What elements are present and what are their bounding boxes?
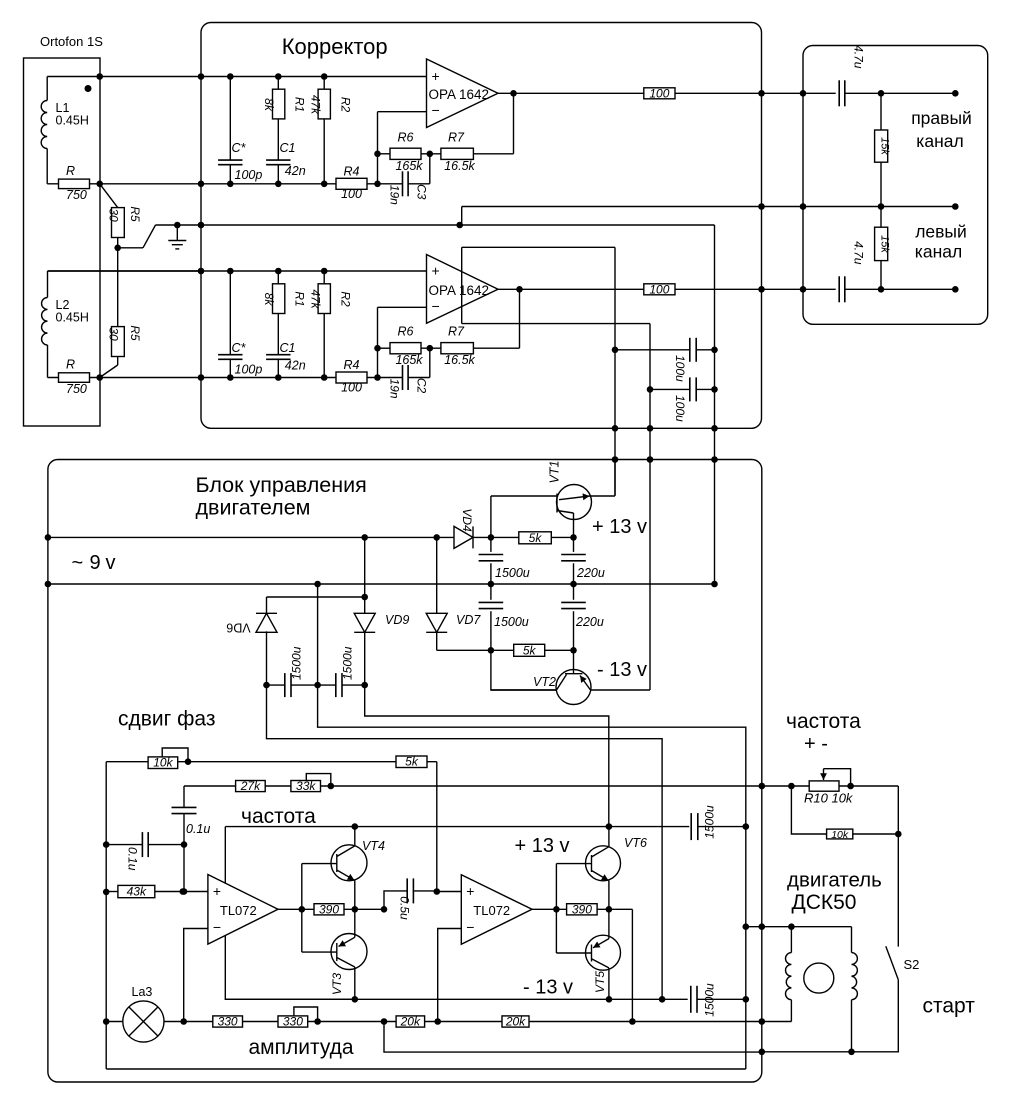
svg-text:R7: R7 [448,325,465,339]
svg-text:20k: 20k [505,1015,526,1029]
svg-text:двигатель: двигатель [787,869,882,892]
svg-text:+: + [432,68,440,84]
svg-text:канал: канал [915,242,962,262]
svg-text:1500u: 1500u [703,805,717,839]
svg-text:−: − [466,919,474,935]
svg-text:C2: C2 [415,378,429,394]
svg-text:R6: R6 [398,325,414,339]
svg-text:R5: R5 [128,325,142,341]
svg-text:+ 13 v: + 13 v [592,516,647,538]
svg-text:30: 30 [107,327,121,341]
svg-text:1500u: 1500u [703,983,717,1017]
svg-text:левый: левый [915,222,967,242]
svg-text:5k: 5k [529,531,543,545]
svg-text:47k: 47k [309,95,323,115]
svg-text:R7: R7 [448,130,465,144]
svg-text:10k: 10k [831,829,849,841]
svg-text:100u: 100u [673,355,687,382]
svg-text:0.1u: 0.1u [126,847,140,871]
svg-text:C*: C* [232,141,247,155]
svg-text:19n: 19n [388,378,402,398]
svg-text:+: + [432,263,440,279]
svg-text:VD6: VD6 [226,621,250,635]
svg-text:амплитуда: амплитуда [249,1036,354,1059]
svg-text:15k: 15k [878,137,890,155]
svg-text:330: 330 [283,1015,303,1029]
svg-text:15k: 15k [878,235,890,253]
svg-text:390: 390 [572,902,592,916]
svg-text:20k: 20k [400,1015,421,1029]
svg-text:R1: R1 [293,291,307,306]
svg-text:100: 100 [341,381,362,395]
svg-text:C3: C3 [415,184,429,200]
svg-text:1500u: 1500u [341,646,355,680]
svg-text:390: 390 [319,902,339,916]
svg-text:R4: R4 [344,164,360,178]
svg-text:−: − [432,102,440,118]
svg-text:C1: C1 [280,341,296,355]
svg-text:- 13 v: - 13 v [523,977,573,999]
svg-text:VT2: VT2 [533,675,556,689]
svg-text:VD9: VD9 [385,613,409,627]
svg-text:220u: 220u [576,566,605,580]
svg-text:R1: R1 [293,97,307,112]
svg-text:+: + [466,883,474,899]
svg-text:100p: 100p [235,363,263,377]
svg-text:канал: канал [916,131,963,151]
svg-text:R: R [66,164,75,178]
svg-text:750: 750 [66,188,87,202]
svg-text:v: v [106,552,116,574]
svg-text:старт: старт [923,995,976,1018]
svg-text:−: − [213,919,221,935]
svg-text:OPA 1642: OPA 1642 [429,87,490,102]
svg-text:19n: 19n [388,185,402,205]
svg-text:R10 10k: R10 10k [804,791,854,806]
svg-text:C1: C1 [280,141,296,155]
svg-text:33k: 33k [296,779,316,793]
svg-text:Блок управления: Блок управления [196,473,367,497]
svg-text:ДСК50: ДСК50 [792,891,857,914]
svg-text:−: − [432,298,440,314]
svg-text:La3: La3 [132,985,153,999]
svg-text:0.45H: 0.45H [56,114,89,128]
svg-text:4.7u: 4.7u [852,45,866,69]
svg-text:VD7: VD7 [456,613,481,627]
svg-text:0.1u: 0.1u [186,822,210,836]
svg-text:R4: R4 [344,358,360,372]
svg-text:100u: 100u [673,395,687,422]
svg-text:10k: 10k [153,756,173,770]
svg-text:+ -: + - [804,733,828,755]
svg-text:750: 750 [66,382,87,396]
svg-text:TL072: TL072 [220,903,257,918]
svg-text:сдвиг фаз: сдвиг фаз [118,708,215,731]
svg-text:Корректор: Корректор [282,34,388,59]
svg-text:~: ~ [72,552,84,574]
svg-text:0.5u: 0.5u [397,896,411,920]
svg-text:47k: 47k [309,289,323,309]
svg-text:частота: частота [786,710,861,733]
svg-text:+: + [213,883,221,899]
svg-text:100p: 100p [235,168,263,182]
svg-text:TL072: TL072 [473,903,510,918]
svg-text:R5: R5 [128,206,142,222]
svg-text:VT6: VT6 [624,836,647,850]
svg-text:1500u: 1500u [290,646,304,680]
svg-text:- 13 v: - 13 v [597,659,647,681]
svg-text:42n: 42n [285,359,306,373]
svg-text:100: 100 [341,187,362,201]
svg-text:VT1: VT1 [548,461,562,484]
svg-text:1500u: 1500u [495,566,530,580]
svg-text:1500u: 1500u [494,615,529,629]
svg-text:9: 9 [90,552,101,574]
svg-text:OPA 1642: OPA 1642 [429,283,490,298]
svg-text:330: 330 [218,1015,238,1029]
svg-text:R2: R2 [339,291,353,307]
svg-text:+ 13 v: + 13 v [515,835,570,857]
svg-text:100: 100 [649,282,669,296]
svg-text:VT3: VT3 [330,973,344,995]
svg-text:VT4: VT4 [362,839,385,853]
svg-text:43k: 43k [127,885,147,899]
svg-text:16.5k: 16.5k [444,353,475,367]
svg-text:R2: R2 [339,97,353,113]
svg-text:5k: 5k [405,755,419,769]
svg-text:42n: 42n [285,164,306,178]
svg-text:R: R [66,358,75,372]
svg-text:частота: частота [241,805,316,828]
svg-text:5k: 5k [523,643,537,657]
svg-text:165k: 165k [395,353,423,367]
svg-text:30: 30 [107,208,121,222]
svg-text:R6: R6 [398,130,414,144]
svg-text:Ortofon 1S: Ortofon 1S [40,34,103,49]
svg-text:VT5: VT5 [593,971,607,993]
svg-text:8k: 8k [262,293,276,307]
svg-text:27k: 27k [240,779,261,793]
svg-text:двигателем: двигателем [196,496,311,520]
svg-text:VD4: VD4 [460,508,474,532]
svg-text:4.7u: 4.7u [852,241,866,265]
svg-text:0.45H: 0.45H [56,311,89,325]
svg-text:16.5k: 16.5k [444,159,475,173]
svg-text:220u: 220u [575,615,604,629]
svg-text:8k: 8k [262,98,276,112]
svg-text:C*: C* [232,341,247,355]
svg-text:100: 100 [649,86,669,100]
svg-text:правый: правый [911,108,972,128]
svg-text:165k: 165k [395,159,423,173]
svg-text:S2: S2 [904,957,920,972]
